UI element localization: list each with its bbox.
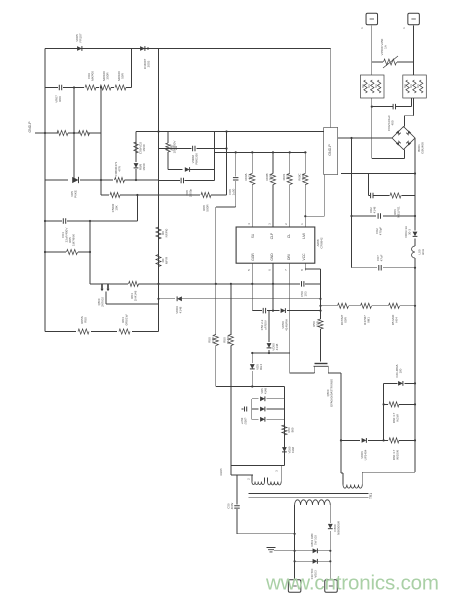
resistor chain startup [321, 305, 338, 307]
svg-text:GND-P: GND-P [28, 121, 32, 133]
wire drain to transformer [340, 373, 342, 473]
aux diode row 2 [252, 408, 259, 410]
svg-text:www.cntronics.com: www.cntronics.com [265, 572, 439, 595]
capacitor C04 bulk left [45, 220, 62, 222]
capacitor C08b [235, 152, 237, 176]
svg-text:MR: MR [375, 84, 378, 88]
svg-text:1u50: 1u50 [231, 188, 235, 195]
svg-text:P6KE200: P6KE200 [194, 153, 198, 165]
svg-text:VD08Z: VD08Z [191, 154, 195, 163]
capacitor C02 [352, 215, 376, 217]
svg-text:GFA06065ASTF/6N65: GFA06065ASTF/6N65 [329, 379, 333, 407]
svg-text:CR6842: CR6842 [319, 237, 323, 248]
zener VD08 row [45, 179, 68, 181]
pin net resistors [251, 152, 253, 173]
wire vertical x74 [73, 88, 75, 181]
svg-text:R50: R50 [83, 317, 87, 323]
svg-text:1M7/86K: 1M7/86K [71, 234, 75, 246]
svg-text:VD50: VD50 [288, 446, 292, 453]
svg-text:1N4148: 1N4148 [133, 290, 137, 301]
svg-text:4148: 4148 [275, 343, 279, 350]
svg-text:MR: MR [368, 84, 371, 88]
svg-text:2200p: 2200p [188, 188, 192, 197]
svg-text:4.02: 4.02 [247, 174, 251, 180]
svg-text:4148: 4148 [372, 206, 376, 213]
aux rectifier box [216, 386, 285, 388]
gate resistor R51 [320, 284, 322, 319]
capacitor CX1 [372, 106, 393, 108]
wire [330, 49, 332, 128]
svg-text:TR1: TR1 [369, 493, 373, 499]
svg-text:4148: 4148 [263, 388, 267, 394]
svg-text:GGR: GGR [251, 253, 255, 261]
svg-text:H04: H04 [394, 317, 398, 323]
wire pin8 to gate [305, 268, 320, 270]
svg-text:+C50: +C50 [240, 417, 244, 424]
capacitor C09 line [45, 87, 58, 89]
wire [414, 258, 416, 471]
diode VD05 [77, 46, 82, 51]
MOSFET Q500 power [320, 329, 322, 362]
resistor R07 [79, 130, 90, 135]
svg-text:GND: GND [270, 253, 274, 261]
svg-text:9M1: 9M1 [366, 317, 370, 323]
svg-text:350R: 350R [105, 72, 109, 80]
diode VD800 on secondary [328, 524, 333, 529]
svg-text:R50: R50 [287, 427, 291, 432]
transformer secondary [294, 505, 296, 580]
svg-text:470pF: 470pF [378, 227, 382, 236]
diode 1N60 branch [135, 132, 137, 163]
net row y310 [252, 310, 262, 312]
resistor R06 [57, 130, 68, 135]
wire [131, 49, 133, 88]
svg-text:1N60: 1N60 [142, 163, 146, 171]
svg-text:GND-P: GND-P [328, 144, 332, 156]
svg-text:400: 400 [390, 120, 394, 125]
inductor L3 [412, 246, 415, 258]
svg-text:47uF: 47uF [379, 254, 383, 261]
svg-text:30-3: 30-3 [407, 229, 411, 235]
feedback resistors [215, 284, 217, 335]
svg-text:NF/R0: NF/R0 [164, 228, 168, 237]
wire snubber top [341, 173, 415, 175]
resistor R11 [100, 85, 111, 90]
svg-text:2W: 2W [174, 146, 178, 150]
transformer core [248, 493, 368, 495]
capacitor C0 104 branch [159, 148, 192, 150]
wire pin2 link [230, 466, 232, 475]
svg-text:0R5/1W: 0R5/1W [124, 314, 128, 325]
wire GND row right [136, 131, 324, 133]
wire [100, 88, 102, 196]
wire [413, 98, 415, 116]
resistor R12 [115, 85, 126, 90]
svg-text:10K: 10K [114, 205, 118, 210]
wire net row y152 [215, 151, 307, 153]
svg-text:MR: MR [417, 84, 420, 88]
svg-text:400V: 400V [230, 503, 234, 510]
transformer TR1 primary B [267, 478, 269, 482]
svg-text:VCC: VCC [302, 253, 306, 261]
svg-text:1N60: 1N60 [142, 144, 146, 152]
svg-text:0K/1K: 0K/1K [226, 336, 230, 344]
capacitor C05 / diode D02 branch [368, 174, 370, 196]
svg-text:T00R: T00R [268, 174, 272, 181]
svg-text:4148/RH: 4148/RH [284, 319, 288, 331]
svg-text:2N7002: 2N7002 [100, 297, 104, 307]
svg-text:180: 180 [398, 368, 402, 373]
resistor network RN1 (left) [361, 75, 385, 98]
sense network right [383, 383, 385, 440]
svg-text:SU: SU [251, 233, 255, 238]
wire DC+ rail [414, 137, 416, 139]
wire top rail [45, 48, 331, 50]
output terminal - [325, 580, 338, 593]
svg-text:LMI: LMI [302, 233, 306, 239]
wire [105, 292, 107, 304]
resistor R05 [45, 251, 66, 253]
aux cap C50 [242, 408, 244, 410]
connector J2 (AC neutral) [408, 13, 420, 25]
wire [371, 98, 373, 159]
diode secondary snub [313, 548, 318, 553]
svg-text:47R: 47R [117, 165, 121, 171]
svg-text:/250?: /250? [243, 417, 247, 424]
svg-text:MKP00: MKP00 [90, 71, 94, 81]
svg-text:K/2W: K/2W [395, 414, 399, 422]
svg-text:UF5404: UF5404 [363, 449, 367, 460]
svg-text:MF/R: MF/R [164, 256, 168, 264]
svg-text:4148: 4148 [291, 447, 295, 453]
wire [136, 195, 138, 221]
wire DC- bus from bridge [351, 138, 353, 268]
wire [158, 49, 160, 332]
svg-text:2003: 2003 [146, 60, 150, 67]
Y-cap branch [236, 475, 238, 505]
svg-text:uF/50V: uF/50V [263, 320, 267, 330]
svg-text:B00: B00 [290, 427, 294, 432]
svg-text:CL: CL [287, 234, 291, 238]
svg-text:CLP: CLP [270, 232, 274, 239]
bottom row resistors [45, 331, 76, 333]
transformer TR1 primary A [251, 475, 253, 482]
svg-text:DRI: DRI [287, 254, 291, 260]
svg-text:1A: 1A [383, 45, 387, 49]
IC U1 CR6842 [236, 227, 315, 263]
diode VD04 [140, 46, 145, 51]
svg-text:W/10W: W/10W [395, 450, 399, 460]
diode VD06 row [341, 439, 360, 441]
svg-text:MR: MR [362, 84, 365, 88]
wire left rail [44, 49, 46, 332]
resistor network RN2 (right) [403, 75, 427, 98]
output terminal + [288, 580, 301, 593]
diode VD03 [413, 232, 418, 237]
svg-text:5W 103: 5W 103 [313, 535, 317, 545]
aux diode row 3 [252, 418, 259, 420]
svg-text:FR107: FR107 [78, 33, 82, 42]
cap row y561 [295, 560, 313, 562]
wire [371, 26, 373, 76]
aux diode2 [282, 447, 287, 452]
ground symbol [274, 550, 295, 552]
svg-text:103: 103 [303, 291, 307, 296]
svg-text:00R: 00R [343, 316, 347, 322]
svg-text:MR: MR [410, 84, 413, 88]
svg-text:50R: 50R [120, 72, 124, 78]
wire row 207 [216, 206, 236, 208]
svg-text:RH4: RH4 [259, 364, 263, 370]
svg-text:4148: 4148 [178, 306, 182, 313]
svg-text:GND5: GND5 [219, 468, 223, 476]
wire right rail bottom [362, 471, 415, 473]
transformer TR1 aux winding [343, 485, 362, 489]
net label GND-P (right) [352, 137, 393, 139]
svg-text:NB0500W: NB0500W [336, 521, 340, 535]
resistor row y195 [101, 194, 109, 196]
svg-text:100K: 100K [211, 336, 215, 343]
wire [413, 26, 415, 76]
connector J1 (AC line) [366, 13, 378, 25]
wire GNDP drop [324, 175, 326, 217]
svg-text:GBU408: GBU408 [420, 142, 424, 154]
wire [89, 221, 91, 284]
snubber diode VD08Z [168, 169, 183, 171]
snubber cap C08 [159, 180, 181, 182]
net row y284 [159, 283, 301, 285]
bridge rectifier BD01 [392, 127, 415, 150]
svg-text:3mH: 3mH [421, 249, 425, 255]
svg-text:P6KE: P6KE [73, 190, 77, 198]
MOSFET Q1 small [101, 284, 110, 291]
capacitor C03 bulk [352, 267, 378, 269]
resistor column x168 [167, 132, 169, 144]
svg-text:MR: MR [404, 84, 407, 88]
aux diode row 1 [251, 399, 253, 420]
diode VD52 [251, 353, 253, 363]
resistors on mid rail [156, 227, 161, 239]
varistor RV1 [372, 61, 383, 63]
aux resistor [282, 425, 287, 435]
resistor R10 [85, 85, 96, 90]
svg-text:R00: R00 [58, 96, 62, 102]
svg-text:51R: 51R [315, 320, 319, 326]
svg-text:T00: T00 [285, 174, 289, 179]
svg-text:R08: R08 [171, 145, 175, 150]
wire [90, 283, 101, 285]
wire pin7 row [252, 352, 289, 354]
resistor R04 [129, 281, 139, 286]
snubber box upper [214, 132, 216, 170]
diode VD51 [268, 311, 270, 342]
wire to bridge AC1 [372, 158, 405, 160]
svg-text:T00R: T00R [301, 174, 305, 181]
svg-text:500R: 500R [205, 204, 209, 212]
svg-text:VD5: VD5 [260, 388, 264, 394]
wire to bridge AC2 [405, 115, 414, 117]
diode VD09 [159, 298, 176, 300]
